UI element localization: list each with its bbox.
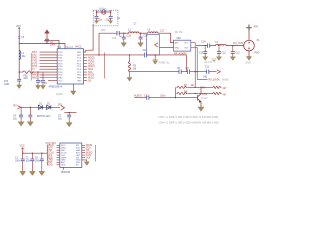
svg-text:100n: 100n [160,95,166,98]
svg-text:C12: C12 [144,94,149,97]
svg-text:C10: C10 [143,50,148,52]
wire pin XT [40,54,58,56]
wire GND pin down [82,160,87,162]
IC1 right pin names [77,52,82,83]
wire pin VDD [57,164,60,166]
svg-text:C16: C16 [112,38,117,40]
svg-text:R: 4k7: R: 4k7 [201,98,208,100]
power arrow up [45,30,50,33]
junction [200,87,201,88]
capacitor C15 plates [217,52,221,54]
junction [30,107,31,108]
inductor L5 ticks [18,37,20,39]
wire pin RXD [40,57,58,59]
capacitor C18 shunt wire [140,33,142,43]
capacitor C3 plates [40,159,44,161]
wire [181,71,187,73]
capacitor C5b plates [67,115,71,117]
wire pin MISO [57,144,60,146]
IC1 bottom gnd stub [72,84,74,91]
svg-text:C13: C13 [199,53,204,55]
svg-text:XT2: XT2 [32,54,37,57]
connector chevron JP2 [17,106,20,110]
capacitor C2 plates [30,159,34,161]
svg-text:22p: 22p [105,18,110,21]
connector chevron out [217,70,221,74]
inductor L1 coil [19,51,21,60]
junction [197,71,198,72]
node VCC symbol [21,147,24,150]
wire pin ADC1 [84,60,88,62]
svg-text:VDD: VDD [48,164,53,167]
svg-text:0=300: 0=300 [222,79,229,81]
junction [232,45,233,46]
svg-text:AUDIO: AUDIO [134,95,142,98]
svg-text:C18: C18 [143,35,148,38]
capacitor C19 plates [122,37,126,39]
wire [110,18,112,21]
svg-text:ATMEGA8-AI: ATMEGA8-AI [49,86,63,89]
wire pin ADC3 [84,65,88,67]
svg-text:GND: GND [246,63,251,65]
svg-text:NC: NC [76,165,79,167]
antenna connector X1 circle [244,40,255,51]
capacitor C7 column wire [37,72,39,85]
junction [129,54,130,55]
resistor R3 [128,62,130,72]
resistor R8 [176,92,187,94]
wire vertical x175.3 [174,87,176,97]
junction [110,11,111,12]
svg-text:VCC: VCC [16,26,21,28]
capacitor plates [28,115,32,117]
svg-text:ANT: ANT [254,26,259,29]
wire pin INT1 [40,65,58,67]
svg-text:FB1: FB1 [24,75,29,77]
capacitor C18 plates [139,37,143,39]
wire module right pins [191,43,208,88]
svg-text:4k7: 4k7 [223,87,228,90]
svg-text:3V3: 3V3 [4,81,9,83]
svg-text:VDD: VDD [61,165,66,167]
ground [66,123,72,127]
wire crystal top [97,11,111,13]
wire X1 bottom [248,51,250,57]
op-amp U2 body [174,40,191,51]
wire [129,55,131,62]
svg-text:U$3: U$3 [177,38,182,40]
svg-text:PAD: PAD [255,52,260,55]
wire pin PD4 [33,71,57,73]
diode D2 [47,105,51,109]
crystal Q1 [102,10,105,14]
junction [32,71,33,72]
junction [37,71,38,72]
svg-text:LOW = 0, 300R / 1.2kR 1=1200 0: LOW = 0, 300R / 1.2kR 1=1200 0=300 RX 43… [159,123,220,125]
capacitor C6 [45,39,49,41]
svg-text:U$1: U$1 [203,77,208,79]
wire RF out up [98,33,100,55]
X1 pad marks [248,42,250,49]
ground [36,86,41,90]
capacitor C10 series [144,53,146,57]
svg-text:GND: GND [77,80,82,82]
power symbol [18,27,20,29]
ground [127,78,132,82]
capacitor C8 plates [41,80,45,82]
svg-text:SS: SS [88,79,92,82]
wire pin SCL [84,71,88,73]
wire right row C [188,86,212,88]
svg-text:100n: 100n [35,160,41,162]
svg-text:100n: 100n [50,44,56,47]
wire right row D [188,92,212,94]
inductor L6 [216,44,226,45]
wire down [154,55,156,60]
svg-text:100n: 100n [15,160,21,162]
junction [218,45,219,46]
wire pin AIN1 [40,77,58,79]
svg-text:C15: C15 [222,53,227,55]
ground [20,171,26,175]
junction [140,33,141,34]
wire [96,18,98,21]
wire [119,32,128,34]
ground [30,171,36,175]
ground [246,57,251,61]
capacitor C12 plates [231,52,235,54]
svg-text:1M: 1M [133,68,136,70]
junction [98,54,99,55]
ground [17,85,22,89]
ground [203,57,208,61]
inductor L4 [148,32,158,33]
wire [134,97,147,99]
power symbol cross [246,25,252,32]
capacitor C9 series [187,70,189,74]
U2 inner text [175,42,190,50]
junction [46,43,47,44]
ground [27,122,33,126]
label flag spine IC1 right [104,53,106,79]
capacitor C1 plates [21,159,25,161]
svg-text:AN_CON: AN_CON [233,42,243,45]
second cap column wire [29,107,31,122]
wire to RF module [158,33,174,42]
svg-text:C12: C12 [235,53,240,55]
wire pin INT1 [82,154,85,156]
wire pin MISO [84,77,88,79]
wire pin SCK [82,147,85,149]
junction [22,153,23,154]
svg-text:JP3: JP3 [58,104,63,107]
ground [198,107,204,111]
capacitor C5b wire [68,113,70,123]
junction [32,153,33,154]
wire pin FSK [57,149,60,151]
Q2 collector up [200,87,202,91]
svg-text:MEGA8: MEGA8 [65,46,74,49]
IC1 left pin names [58,52,63,83]
svg-text:GND: GND [175,47,180,49]
capacitor C11 series [207,70,209,74]
IC2 left pin names [61,145,67,167]
earth ground bar [152,59,158,61]
svg-text:4k7: 4k7 [223,93,228,96]
wire corner down [185,55,187,72]
shield box dashed [93,10,118,26]
ground [109,21,113,24]
label flag spine IC1 left [30,53,32,81]
svg-text:AGND Ucc: AGND Ucc [159,62,171,65]
wire y112.5 [64,112,76,114]
junction [175,97,176,98]
wire antenna line [196,45,208,47]
junction [195,87,196,88]
junction [19,71,20,72]
op-amp IC1 body [57,49,83,84]
wire pin VDI [82,157,85,159]
junction [41,153,42,154]
IC2 bottom stub [63,167,65,169]
wire [19,71,23,73]
capacitor C2 wire [31,153,33,171]
wire X1 top up [248,31,250,40]
jumper JP4 arrow [155,43,158,47]
wire pin GND [57,159,60,161]
transistor Q2 [198,91,202,107]
svg-text:GND: GND [4,84,9,86]
wire pin ANT [57,161,60,163]
junction [205,45,206,46]
svg-text:VDI: VDI [86,156,90,159]
svg-text:100n: 100n [26,160,32,162]
svg-text:AVCC: AVCC [75,46,82,49]
capacitor C16 series [117,31,119,35]
junction [123,33,124,34]
shunt capacitor C15 wire [218,46,220,56]
wire [149,97,198,99]
svg-text:BAT54C ADJ: BAT54C ADJ [37,115,50,118]
svg-text:C17: C17 [160,30,165,33]
junction [69,112,70,113]
capacitor C8 column wire [42,72,44,85]
svg-text:LOW = 1, 300R / 1.2kR 1=300 0=: LOW = 1, 300R / 1.2kR 1=300 0=1200 TX 43… [159,117,219,119]
ground [230,57,235,61]
wire pin DCLK [57,152,60,154]
wire [129,72,131,78]
wire pin ADC2 [84,63,88,65]
wire pin RST [40,51,58,53]
wire [46,41,48,44]
wire pin INT0 [40,63,58,65]
wire RF line [99,32,117,34]
capacitor C13 plates [203,52,207,54]
wire y107.3 [21,106,60,108]
wire pin MOSI [82,144,85,146]
svg-text:100p: 100p [101,30,107,32]
label flag spine IC2 right [95,145,97,162]
capacitor on rail [17,79,21,81]
wire [46,33,48,39]
small earth right [212,59,217,62]
svg-text:C9 C11: C9 C11 [205,62,213,64]
ground [121,43,127,47]
junction [195,71,196,72]
wire pin TXD [40,60,58,62]
wire pin SS [82,149,85,151]
shunt capacitor C13 wire [204,46,206,56]
svg-text:VCC: VCC [184,43,189,45]
wire vertical rail [18,29,20,79]
svg-text:22p: 22p [98,18,103,21]
wire [210,45,216,47]
capacitor C3 wire [41,153,43,171]
wire pin VCC [48,80,57,82]
connector chevron JP3 [61,105,65,110]
diode D1 [38,105,42,109]
wire [209,71,217,73]
earth ground triangle [153,61,157,64]
wire vcc rail [23,150,48,153]
wire [19,40,65,48]
wire pin CLK [57,154,60,156]
resistor R7 [176,86,187,88]
svg-text:AIN1: AIN1 [32,77,38,80]
capacitor C1 wire [22,153,24,171]
ground [217,57,222,61]
wire [226,45,244,47]
ground [41,86,46,90]
svg-text:C19: C19 [127,35,132,38]
ground under IC1 [71,91,77,95]
IC2 right pin names [76,145,82,167]
wire pin SDA [84,68,88,70]
wire pin RES [57,157,60,159]
junction [96,11,97,12]
capacitor C4 [95,16,99,18]
svg-text:RF 433: RF 433 [175,32,183,34]
IC2 body [60,143,82,167]
wire pin SS [84,80,88,82]
wire long y54.95 [84,54,145,56]
svg-text:RXD: RXD [202,93,207,96]
wire stub down left [96,10,98,16]
junction [195,93,196,94]
wire jumper to module [160,47,174,49]
capacitor C19 shunt wire [123,33,125,43]
svg-text:JP2: JP2 [13,104,18,107]
wire pin MISO [82,152,85,154]
wire pin AIN0 [40,74,58,76]
wire [139,32,148,34]
wire pin T1 [40,68,58,70]
wire XTAL1 up [84,24,94,52]
svg-text:VCC: VCC [58,80,63,82]
capacitor C14 series [208,43,210,47]
antenna jumper JP4 body [147,35,160,56]
inductor L3 [129,32,139,33]
svg-text:4k7: 4k7 [191,84,196,87]
svg-text:ADJ: ADJ [24,77,28,80]
junction [155,54,156,55]
crystal Q1 body [103,10,105,14]
ground [95,21,99,24]
wire [190,71,207,73]
ground [84,162,89,166]
capacitor C8 series [179,70,181,74]
resistor R4 [212,86,222,88]
shunt capacitor C12 wire [232,46,234,57]
wire [147,54,187,56]
ground [39,171,45,175]
svg-text:C14: C14 [201,41,206,44]
capacitor C21 plates [19,115,23,117]
ground [138,43,144,47]
wire pin ADC0 [84,57,88,59]
label flag spine IC2 left [46,145,48,166]
svg-text:AGND: AGND [56,93,63,96]
ground [18,122,24,126]
svg-text:RX_DATA: RX_DATA [209,79,220,82]
wire [18,81,20,85]
capacitor C5 [109,16,113,18]
wire [130,71,180,73]
wire pin INT0 [57,147,60,149]
junction [21,107,22,108]
wire pin MOSI [84,74,88,76]
capacitor C20 series [147,96,149,100]
ferrite bead FB1 [23,71,33,74]
resistor R6 [212,92,222,94]
svg-text:VCC: VCC [20,145,25,148]
capacitor C21 wire [20,107,22,122]
capacitor C7 plates [36,80,40,82]
wire stub down right [110,10,112,16]
